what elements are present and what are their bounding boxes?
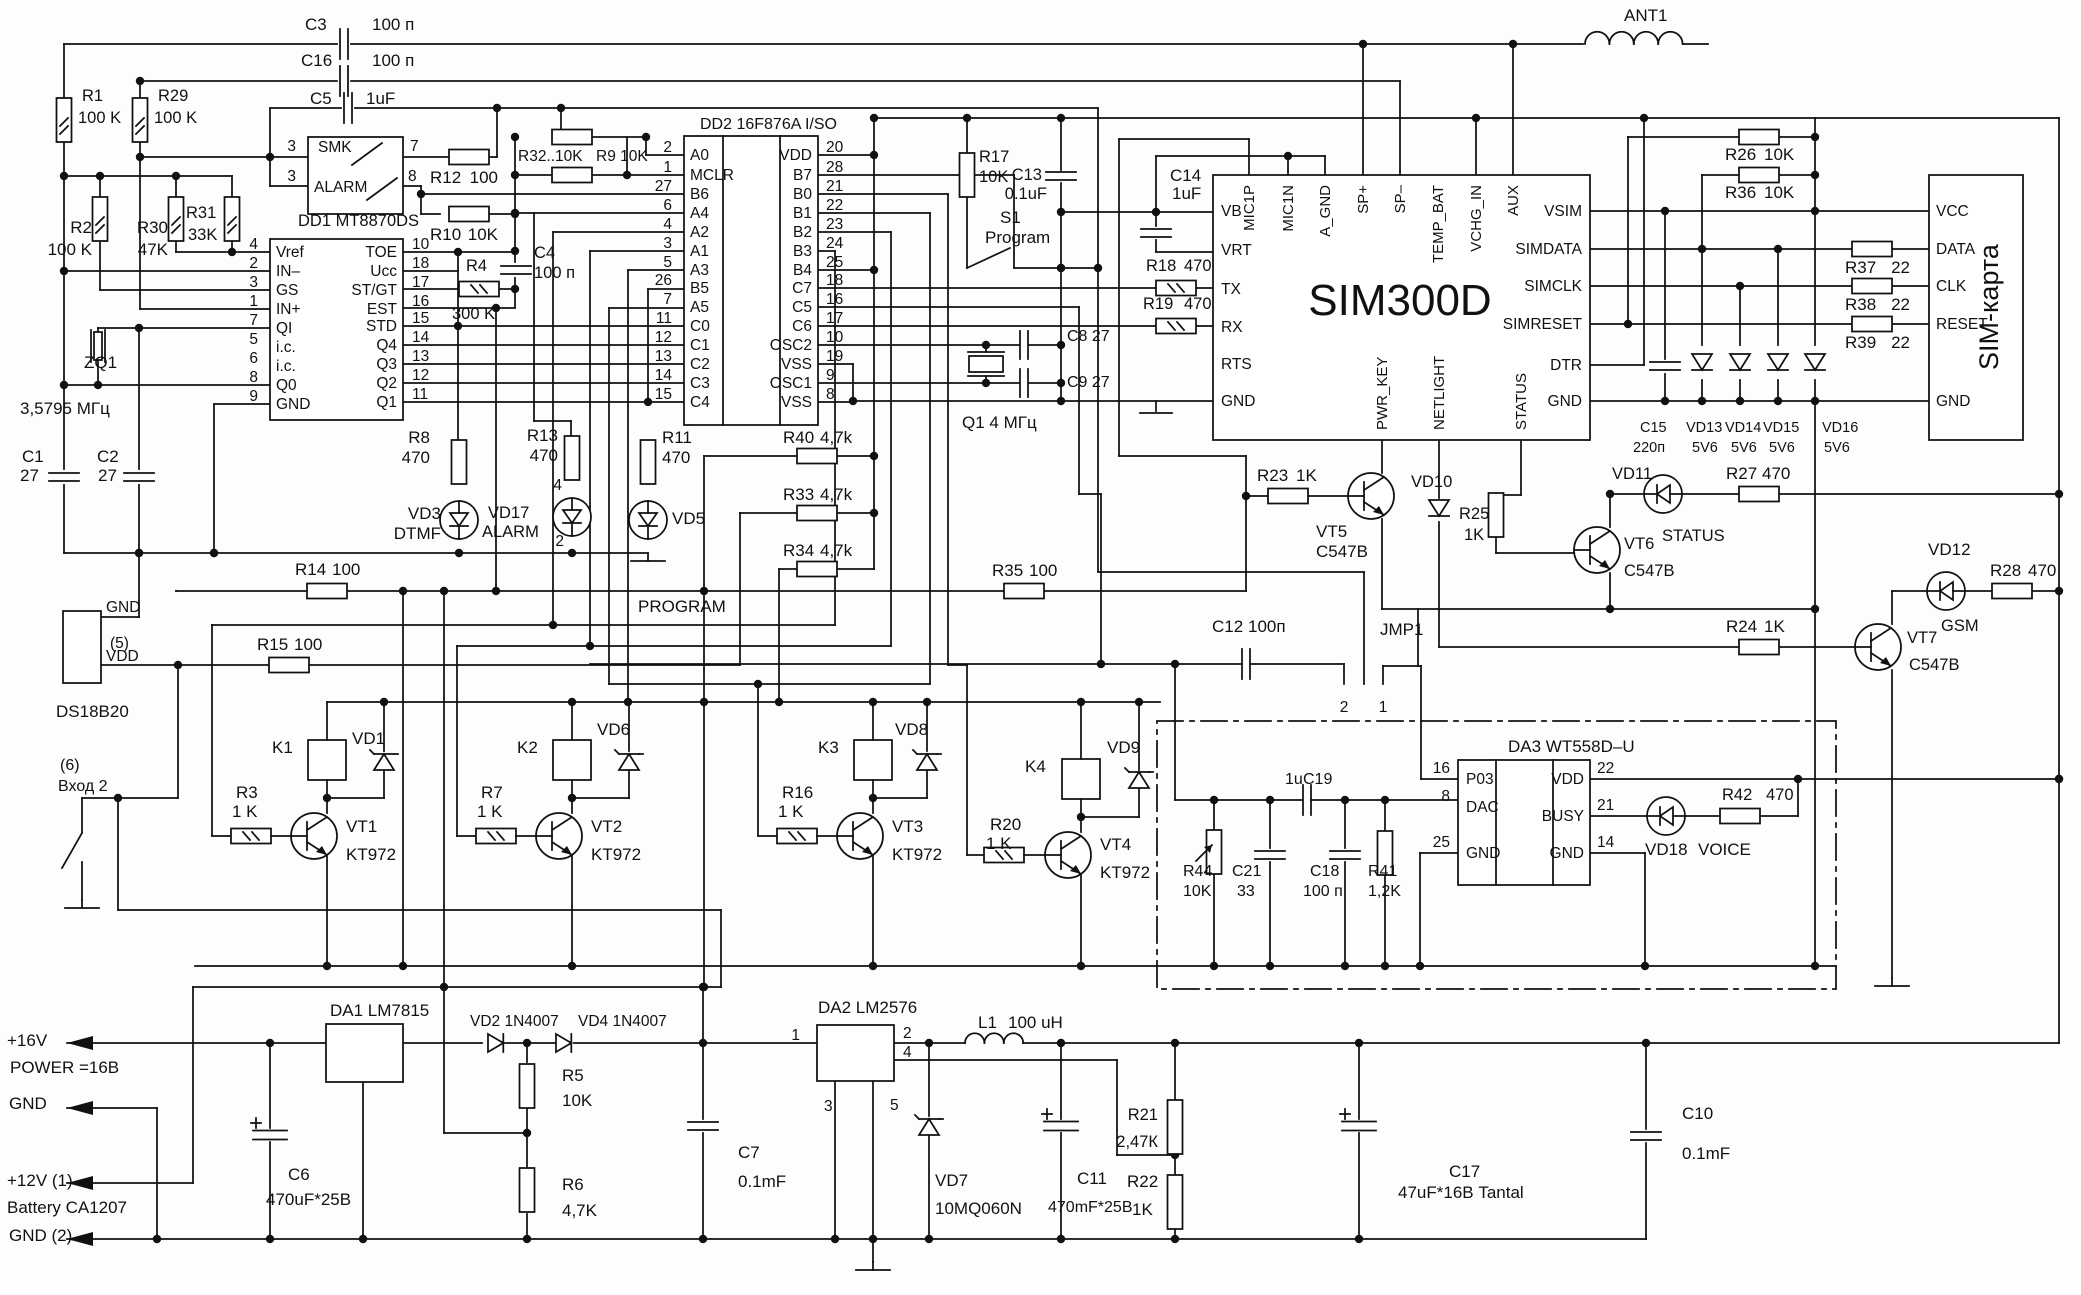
svg-text:3: 3 (824, 1098, 833, 1115)
svg-text:C547B: C547B (1316, 542, 1368, 561)
svg-text:100: 100 (1029, 561, 1057, 580)
node R32 row (561, 133, 684, 155)
svg-text:R2: R2 (70, 218, 92, 237)
svg-text:27: 27 (98, 466, 117, 485)
label DA3 (1508, 737, 1635, 756)
svg-text:VD11: VD11 (1612, 465, 1652, 483)
svg-text:20: 20 (826, 139, 844, 156)
svg-text:GND: GND (9, 1094, 47, 1113)
svg-text:2: 2 (555, 533, 564, 550)
svg-text:C12: C12 (1212, 617, 1243, 636)
svg-text:BUSY: BUSY (1542, 808, 1584, 825)
svg-text:22: 22 (1891, 258, 1910, 277)
svg-text:R3: R3 (236, 783, 258, 802)
wire VT1 emitter (326, 855, 328, 966)
capacitor C7 (688, 1122, 786, 1191)
wire SIMDATA-R37 (1590, 245, 1929, 253)
svg-text:Q3: Q3 (376, 356, 397, 373)
svg-text:R12: R12 (430, 168, 461, 187)
svg-text:VT2: VT2 (591, 817, 622, 836)
regulator DA1 LM7815 box (326, 1024, 403, 1082)
svg-text:STATUS: STATUS (1513, 373, 1530, 430)
wire V703 to DA2 (699, 987, 707, 1243)
svg-text:VT5: VT5 (1316, 522, 1347, 541)
transistor VT5 (1316, 473, 1394, 561)
svg-text:R30: R30 (137, 218, 168, 237)
resistor R34 (783, 541, 853, 577)
svg-text:R13: R13 (527, 426, 558, 445)
svg-text:VD18: VD18 (1645, 840, 1688, 859)
svg-text:8: 8 (826, 386, 835, 403)
svg-text:Q4: Q4 (376, 337, 397, 354)
svg-text:1 K: 1 K (232, 802, 258, 821)
svg-text:7: 7 (410, 138, 419, 155)
wire Q3-C2 row (403, 363, 684, 365)
svg-text:VD13: VD13 (1686, 420, 1722, 436)
wire JMP1 pin1 (1383, 666, 1458, 779)
svg-text:R22: R22 (1127, 1172, 1158, 1191)
svg-text:R33: R33 (783, 485, 814, 504)
svg-text:C6: C6 (792, 318, 812, 335)
wire VD15 col (1777, 249, 1779, 401)
svg-text:VRT: VRT (1221, 242, 1252, 259)
label JMP pins (1340, 699, 1388, 716)
svg-text:5V6: 5V6 (1769, 440, 1795, 456)
wire R12-MCLR row (511, 171, 684, 179)
wire B5 staircase (648, 289, 684, 402)
svg-text:KT972: KT972 (892, 845, 942, 864)
wire A4 staircase (511, 209, 684, 441)
arrow +16V (7, 1031, 119, 1077)
svg-text:1,2K: 1,2K (1368, 883, 1401, 900)
resistor R10 (430, 207, 499, 245)
wire R40R33R34 rights (836, 456, 874, 569)
svg-text:GND: GND (1221, 393, 1255, 410)
svg-text:3: 3 (663, 235, 672, 252)
wire crystal-C8 (982, 341, 1065, 387)
resistor R23 (1257, 466, 1317, 504)
capacitor C1 (20, 447, 79, 485)
switch SMK/ALARM block (287, 137, 418, 214)
svg-text:100 K: 100 K (78, 109, 121, 127)
wire MIC line (1119, 139, 1250, 591)
svg-text:100 K: 100 K (154, 109, 197, 127)
svg-text:Вход 2: Вход 2 (58, 778, 108, 795)
label DD2 (700, 116, 837, 133)
svg-text:1K: 1K (1764, 617, 1785, 636)
svg-text:R32..10K: R32..10K (518, 148, 583, 165)
led VD18 (1645, 797, 1751, 859)
svg-text:24: 24 (826, 235, 844, 252)
svg-text:19: 19 (826, 348, 843, 365)
wire GND2 rail (67, 1235, 1646, 1243)
capacitor C16 (301, 51, 414, 96)
svg-text:7: 7 (663, 291, 672, 308)
wire EST row (403, 304, 515, 312)
wire PWR_KEY col (1381, 440, 1383, 473)
svg-text:21: 21 (1597, 797, 1614, 814)
svg-text:SP+: SP+ (1355, 185, 1372, 214)
svg-text:14: 14 (1597, 834, 1615, 851)
svg-text:GND: GND (1548, 393, 1582, 410)
wire DA2 pin5 (872, 1081, 874, 1262)
svg-text:2: 2 (903, 1025, 912, 1042)
wire B1 vertical (929, 213, 931, 684)
svg-text:13: 13 (655, 348, 672, 365)
wire A1 staircase (590, 251, 684, 646)
wire V444 drop (440, 587, 448, 1133)
svg-text:R41: R41 (1368, 863, 1397, 880)
svg-text:4,7k: 4,7k (820, 428, 853, 447)
label DA2 pins (791, 1025, 912, 1115)
svg-text:TX: TX (1221, 281, 1241, 298)
resistor R2 (48, 197, 108, 259)
wire ALARM-B6 (266, 108, 684, 214)
svg-text:C13: C13 (1012, 166, 1042, 184)
svg-text:MIC1N: MIC1N (1280, 185, 1297, 232)
svg-text:R8: R8 (408, 428, 430, 447)
wire Ucc row (403, 252, 458, 271)
svg-text:R38: R38 (1845, 295, 1876, 314)
svg-text:ALARM: ALARM (482, 523, 539, 541)
diode VD8 (895, 720, 941, 770)
svg-text:6: 6 (663, 197, 672, 214)
svg-text:GND: GND (106, 599, 140, 616)
svg-text:DS18B20: DS18B20 (56, 702, 129, 721)
label DS18B20 pins (106, 599, 140, 665)
connector SIM-karta box (1929, 175, 2023, 440)
svg-text:GND: GND (1936, 393, 1970, 410)
svg-text:A3: A3 (690, 262, 709, 279)
svg-text:SIM300D: SIM300D (1308, 276, 1491, 325)
svg-text:9: 9 (249, 388, 258, 405)
wire Q4-C1 row (403, 344, 684, 346)
svg-text:1: 1 (791, 1027, 800, 1044)
label S1 (985, 208, 1050, 247)
wire DS VDD riser (177, 665, 179, 798)
resistor R17 (960, 148, 1010, 197)
svg-text:Q1: Q1 (376, 394, 397, 411)
svg-text:Q1 4 МГц: Q1 4 МГц (962, 413, 1037, 432)
capacitor C13 (1005, 166, 1076, 203)
capacitor C9 (1020, 369, 1110, 397)
svg-text:VD4 1N4007: VD4 1N4007 (578, 1013, 667, 1030)
wire R5R6 col (444, 1043, 531, 1239)
svg-text:R23: R23 (1257, 466, 1288, 485)
svg-text:C5: C5 (310, 89, 332, 108)
label pin4 (553, 477, 562, 494)
svg-text:VD8: VD8 (895, 720, 928, 739)
ground VD5 (631, 553, 665, 561)
wire AUX drop (1509, 40, 1517, 175)
svg-text:15: 15 (655, 386, 672, 403)
svg-text:220п: 220п (1633, 440, 1665, 456)
svg-text:B5: B5 (690, 280, 709, 297)
wire B1 stub (818, 212, 930, 214)
wire VD14 col (1739, 286, 1741, 401)
svg-text:R27: R27 (1726, 464, 1757, 483)
svg-text:15: 15 (412, 310, 429, 327)
zener VD16 (1805, 354, 1858, 456)
wire R36 link (1702, 171, 1819, 249)
svg-text:3: 3 (249, 274, 258, 291)
svg-text:C1: C1 (22, 447, 44, 466)
resistor R8 (402, 428, 467, 484)
wire GND rail 553 (64, 549, 648, 557)
svg-text:SIMCLK: SIMCLK (1524, 278, 1582, 295)
capacitor C12 (1212, 617, 1286, 679)
svg-text:ZQ1: ZQ1 (84, 353, 117, 372)
ground VT7 (1875, 978, 1909, 986)
svg-text:POWER =16В: POWER =16В (10, 1058, 119, 1077)
wire DA3 GND25 (1416, 853, 1458, 970)
svg-text:25: 25 (1433, 834, 1450, 851)
svg-text:VD3: VD3 (408, 504, 441, 523)
svg-text:1: 1 (1379, 699, 1388, 716)
capacitor C5 (310, 89, 395, 123)
zener VD13 (1686, 354, 1722, 456)
wire VD16 col (1811, 118, 1819, 970)
svg-text:C6: C6 (288, 1165, 310, 1184)
resistor R21 (1116, 1100, 1182, 1154)
svg-text:47uF*16В Tantal: 47uF*16В Tantal (1398, 1183, 1524, 1202)
label DS18B20 (56, 702, 129, 721)
wire C7-TX row (818, 287, 1213, 289)
resistor R13 (527, 426, 580, 480)
wire B7-S1 riser (1013, 175, 1015, 268)
svg-text:ST/GT: ST/GT (351, 282, 397, 299)
svg-text:R6: R6 (562, 1175, 584, 1194)
resistor R19 (1143, 295, 1212, 334)
svg-text:10K: 10K (1764, 145, 1795, 164)
wire DTR (1590, 114, 1648, 365)
svg-text:DA3 WT558D–U: DA3 WT558D–U (1508, 737, 1635, 756)
svg-text:21: 21 (826, 178, 843, 195)
wire C6-RX row (818, 325, 1213, 327)
svg-text:100 п: 100 п (534, 264, 575, 282)
wire R9 riser (626, 137, 628, 175)
diode VD1 (352, 729, 398, 770)
svg-text:i.c.: i.c. (276, 339, 296, 356)
transistor VT1 (271, 813, 396, 864)
capacitor C14 (1141, 166, 1201, 237)
wire C15 col (1664, 211, 1666, 401)
svg-text:C2: C2 (690, 356, 710, 373)
svg-text:B2: B2 (793, 224, 812, 241)
resistor R25 (1459, 493, 1504, 544)
svg-text:3,5795 МГц: 3,5795 МГц (20, 399, 110, 418)
arrow +12V (7, 1171, 127, 1217)
wire VT5 emitter (1381, 519, 1383, 609)
resistor R6 (520, 1168, 598, 1220)
svg-text:14: 14 (412, 329, 430, 346)
resistor R12 (430, 150, 498, 188)
wire R23 line (1246, 495, 1348, 497)
svg-text:47K: 47K (138, 240, 169, 259)
node GND symbol SIM (1140, 401, 1172, 413)
svg-text:R35: R35 (992, 561, 1023, 580)
wire +12V riser (67, 987, 193, 1183)
svg-text:A0: A0 (690, 147, 709, 164)
svg-text:C21: C21 (1232, 863, 1261, 880)
svg-text:C4: C4 (690, 394, 710, 411)
svg-text:470: 470 (530, 446, 558, 465)
diode VD2 (470, 1013, 559, 1052)
resistor R42 (1720, 786, 1794, 824)
svg-text:S1: S1 (1000, 208, 1021, 227)
svg-text:25: 25 (826, 254, 843, 271)
svg-text:1uF: 1uF (366, 89, 395, 108)
svg-text:470: 470 (1762, 464, 1790, 483)
svg-text:100: 100 (470, 168, 498, 187)
svg-text:17: 17 (826, 310, 843, 327)
zener VD15 (1763, 354, 1799, 456)
wire VT2 emitter (571, 855, 573, 966)
transistor VT3 (817, 813, 942, 864)
svg-text:C11: C11 (1077, 1169, 1107, 1188)
svg-text:VT6: VT6 (1624, 535, 1654, 553)
wire K4 fan (948, 194, 984, 855)
svg-text:1u: 1u (1285, 771, 1303, 788)
capacitor C10 (1631, 1104, 1730, 1163)
svg-text:4,7k: 4,7k (820, 485, 853, 504)
wire NETLIGHT col (1438, 440, 1440, 498)
svg-text:VOICE: VOICE (1698, 840, 1751, 859)
svg-text:C10: C10 (1682, 1104, 1713, 1123)
svg-text:100: 100 (294, 635, 322, 654)
led VD11 (1612, 465, 1725, 545)
svg-text:VD2 1N4007: VD2 1N4007 (470, 1013, 559, 1030)
svg-text:A5: A5 (690, 299, 709, 316)
resistor R5 (520, 1064, 593, 1110)
svg-text:C4: C4 (534, 244, 555, 262)
wire VT4 emitter (1080, 874, 1082, 966)
wire C13 column (1057, 114, 1065, 401)
svg-text:VT1: VT1 (346, 817, 377, 836)
resistor R32 (518, 130, 592, 166)
svg-text:R28: R28 (1990, 561, 2021, 580)
wire VT3 emitter (872, 855, 874, 966)
wire B2 stub (818, 231, 891, 233)
resistor R18 (1146, 257, 1212, 296)
svg-text:100п: 100п (1248, 617, 1286, 636)
svg-text:VDD: VDD (1551, 771, 1584, 788)
capacitor C11 (1042, 1109, 1133, 1216)
svg-text:Q0: Q0 (276, 377, 297, 394)
svg-text:7: 7 (249, 312, 258, 329)
svg-text:4: 4 (249, 236, 258, 253)
svg-text:100 п: 100 п (372, 51, 414, 70)
wire R26 link (1628, 133, 1819, 324)
potentiometer R44 (1183, 830, 1222, 900)
diode VD9 (1107, 738, 1153, 788)
svg-text:5: 5 (249, 331, 258, 348)
svg-text:1K: 1K (1132, 1200, 1153, 1219)
svg-text:GND (2): GND (2) (9, 1226, 72, 1245)
svg-text:GND: GND (1466, 845, 1500, 862)
wire PGM to JMP (1098, 571, 1364, 573)
wire B0 stub (818, 193, 948, 195)
wire emitter rail 609 (1382, 605, 1815, 613)
svg-text:VD5: VD5 (672, 509, 705, 528)
wire crystal-C9 (1029, 379, 1065, 387)
svg-text:KT972: KT972 (346, 845, 396, 864)
svg-text:SP–: SP– (1392, 184, 1409, 213)
svg-text:22: 22 (1891, 295, 1910, 314)
wire VT7 emitter (1891, 670, 1893, 978)
svg-text:4,7K: 4,7K (562, 1201, 598, 1220)
transistor VT2 (516, 813, 641, 864)
wire sensor tap (114, 794, 122, 910)
led VD17 (482, 498, 591, 541)
wire A5 staircase (609, 308, 684, 684)
svg-text:470: 470 (1184, 295, 1212, 313)
svg-text:VB: VB (1221, 203, 1242, 220)
zener VD7 (915, 1115, 1022, 1218)
svg-text:C7: C7 (792, 280, 812, 297)
svg-text:SIMRESET: SIMRESET (1503, 316, 1583, 333)
module SIM300D box (1213, 175, 1590, 440)
led VD5 (629, 501, 705, 539)
svg-text:GS: GS (276, 282, 298, 299)
svg-text:IN–: IN– (276, 263, 301, 280)
svg-text:VD12: VD12 (1928, 540, 1971, 559)
svg-text:1 K: 1 K (477, 802, 503, 821)
svg-text:470: 470 (662, 448, 690, 467)
svg-text:2: 2 (663, 139, 672, 156)
wire VD11 line (1610, 493, 2059, 495)
wire DA2 pin4 fb (894, 1060, 1179, 1159)
svg-text:R7: R7 (481, 783, 503, 802)
svg-text:AUX: AUX (1505, 185, 1522, 216)
capacitor C6 (251, 1118, 351, 1209)
resistor R40 (783, 428, 853, 464)
svg-text:+16V: +16V (7, 1031, 48, 1050)
arrow GND2 (9, 1226, 93, 1246)
svg-text:R9 10K: R9 10K (596, 148, 648, 165)
wire C14 column (1156, 156, 1213, 252)
wire C18 col (1341, 800, 1349, 970)
relay K3 (818, 702, 927, 813)
capacitor C19 (1285, 771, 1332, 815)
svg-text:C8 27: C8 27 (1067, 328, 1110, 345)
diode VD6 (597, 720, 643, 770)
wire GS row (100, 238, 270, 290)
svg-text:9: 9 (826, 367, 835, 384)
svg-text:2: 2 (1340, 699, 1349, 716)
svg-text:0.1mF: 0.1mF (1682, 1144, 1730, 1163)
wire B3 stub (818, 250, 835, 252)
wire R41 col (1381, 800, 1389, 970)
svg-text:R14: R14 (295, 560, 326, 579)
resistor R1 (57, 87, 122, 142)
svg-text:100 K: 100 K (48, 240, 93, 259)
svg-text:C0: C0 (690, 318, 710, 335)
svg-text:4: 4 (903, 1044, 912, 1061)
svg-text:22: 22 (826, 197, 843, 214)
svg-text:A2: A2 (690, 224, 709, 241)
svg-text:DD2 16F876A I/SO: DD2 16F876A I/SO (700, 116, 837, 133)
svg-text:8: 8 (249, 369, 258, 386)
svg-text:C7: C7 (738, 1143, 760, 1162)
capacitor C3 (305, 15, 414, 59)
svg-text:C16: C16 (301, 51, 332, 70)
capacitor C2 (97, 447, 154, 485)
svg-text:R26: R26 (1725, 145, 1756, 164)
ground sensor (65, 900, 99, 908)
svg-text:12: 12 (655, 329, 672, 346)
led VD12 (1927, 540, 1979, 635)
